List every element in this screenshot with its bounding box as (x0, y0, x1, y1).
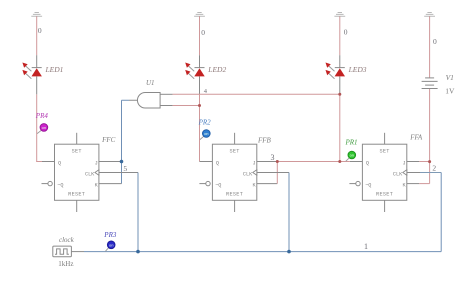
svg-text:U1: U1 (146, 79, 155, 87)
svg-text:1: 1 (364, 242, 368, 251)
svg-text:1kHz: 1kHz (58, 260, 73, 268)
svg-text:RESET: RESET (226, 192, 243, 198)
svg-text:PR1: PR1 (345, 138, 358, 146)
svg-text:V1: V1 (446, 73, 454, 82)
svg-text:clock: clock (59, 236, 75, 244)
svg-text:on: on (42, 125, 46, 130)
svg-text:on: on (350, 153, 354, 158)
svg-text:J: J (95, 160, 98, 166)
svg-text:Q: Q (58, 160, 61, 166)
svg-text:LED2: LED2 (207, 65, 226, 74)
svg-text:RESET: RESET (68, 192, 85, 198)
svg-text:0: 0 (201, 28, 205, 37)
svg-text:CLK: CLK (243, 171, 253, 177)
svg-text:3: 3 (271, 153, 275, 162)
svg-text:FFC: FFC (101, 136, 116, 144)
svg-text:FFB: FFB (257, 136, 272, 144)
svg-text:J: J (252, 160, 255, 166)
svg-text:RESET: RESET (376, 192, 393, 198)
svg-text:2: 2 (432, 163, 436, 172)
svg-text:~Q: ~Q (57, 182, 63, 188)
svg-text:SET: SET (72, 148, 82, 154)
svg-text:0: 0 (344, 28, 348, 37)
svg-text:J: J (402, 160, 405, 166)
svg-text:1V: 1V (445, 86, 455, 95)
svg-text:5: 5 (123, 164, 127, 173)
svg-text:LED3: LED3 (348, 65, 367, 74)
svg-text:on: on (204, 131, 208, 136)
svg-text:~Q: ~Q (215, 182, 221, 188)
svg-text:0: 0 (38, 26, 42, 35)
svg-text:PR2: PR2 (198, 119, 212, 127)
svg-text:SET: SET (229, 148, 239, 154)
svg-text:Q: Q (366, 160, 369, 166)
svg-text:on: on (109, 242, 113, 247)
svg-text:LED1: LED1 (45, 65, 64, 74)
svg-text:Q: Q (216, 160, 219, 166)
svg-text:CLK: CLK (393, 171, 403, 177)
svg-text:~Q: ~Q (365, 182, 371, 188)
svg-text:0: 0 (433, 37, 437, 46)
svg-text:FFA: FFA (409, 134, 423, 142)
svg-text:PR3: PR3 (103, 231, 117, 239)
svg-text:CLK: CLK (85, 171, 95, 177)
svg-text:SET: SET (379, 148, 389, 154)
svg-text:PR4: PR4 (35, 112, 49, 120)
